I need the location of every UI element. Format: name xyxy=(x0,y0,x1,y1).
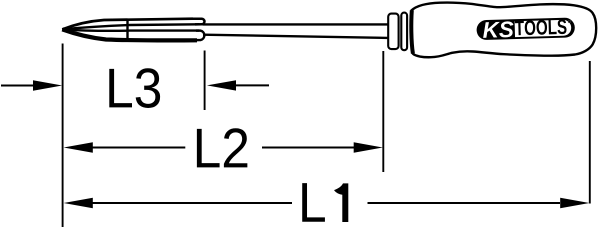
L2 left arrow xyxy=(64,142,93,152)
L2 dimension line xyxy=(92,147,354,149)
blade top edge xyxy=(62,19,193,30)
extension line at blade end xyxy=(204,51,206,111)
logo KS text xyxy=(483,21,514,38)
blade facet line A xyxy=(62,24,199,29)
blade upper lobe end cap xyxy=(193,19,205,25)
logo white field xyxy=(515,20,572,38)
blade cross line xyxy=(126,19,128,41)
logo TOOLS text xyxy=(515,19,567,35)
extension line at handle end xyxy=(589,61,591,204)
L1 label digit 1 xyxy=(334,183,348,222)
extension line at shaft end xyxy=(382,51,384,172)
shaft bottom line xyxy=(203,35,388,38)
ferrule band xyxy=(401,13,407,51)
blade lower lobe end cap xyxy=(195,31,204,41)
L2 label xyxy=(197,128,247,167)
logo registered mark xyxy=(568,20,571,23)
L1 right arrow xyxy=(560,198,589,208)
handle outline xyxy=(411,3,596,58)
KS TOOLS logo xyxy=(476,17,575,40)
extension line at tip xyxy=(62,44,64,228)
L3 left arrow xyxy=(1,85,34,87)
L1 label L xyxy=(302,183,325,222)
L3 right arrow xyxy=(236,84,269,86)
L2 right arrow xyxy=(354,142,383,152)
shaft top line xyxy=(203,23,389,25)
blade facet line B xyxy=(62,29,199,30)
ferrule cap xyxy=(388,14,398,50)
L1 dimension line xyxy=(92,202,560,204)
logo pill xyxy=(476,17,575,40)
L1 left arrow xyxy=(64,198,93,208)
handle neck edge xyxy=(411,10,413,53)
blade bottom edge xyxy=(62,29,197,40)
L3 label xyxy=(109,68,160,108)
